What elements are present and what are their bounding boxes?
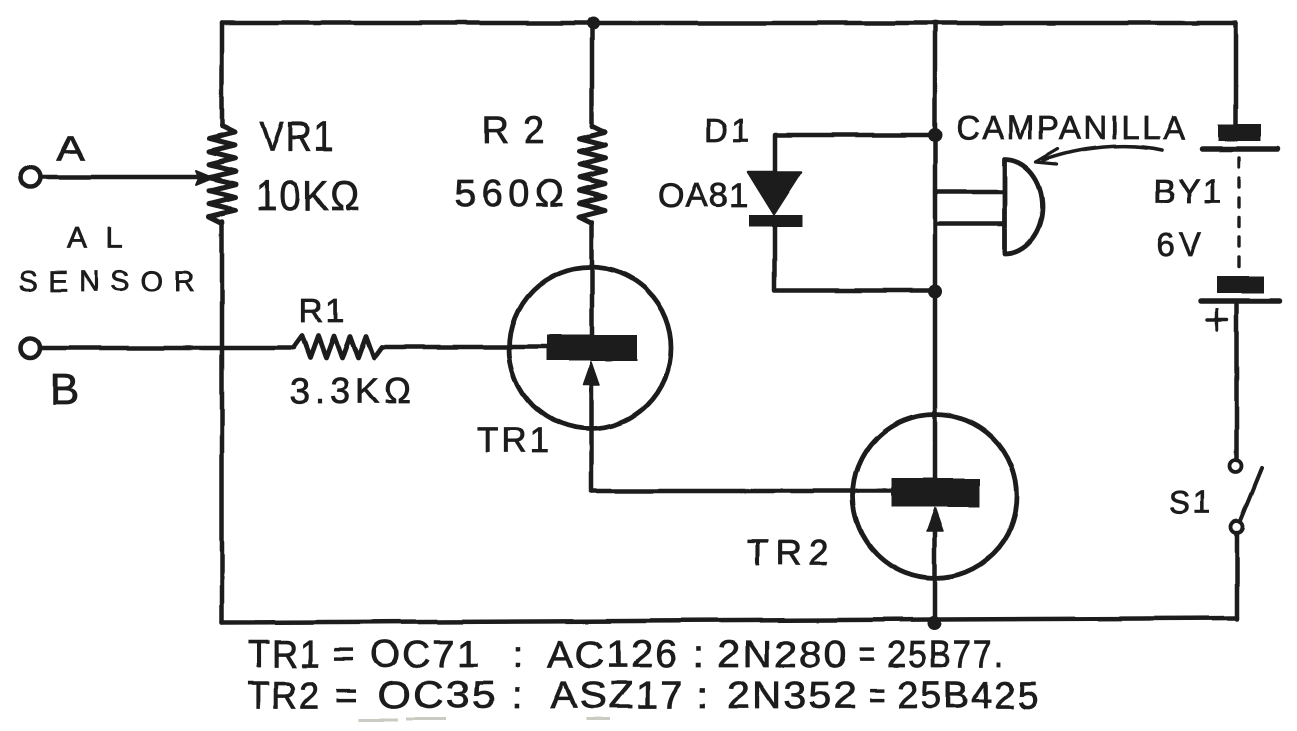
- svg-text:TR2: TR2: [747, 532, 836, 573]
- transistor TR1 emitter arrow: [583, 362, 599, 385]
- campanilla pointer arrow: [1044, 146, 1162, 160]
- wire TR1 emitter down: [589, 382, 594, 491]
- battery BY1 cell 1 positive plate: [1202, 146, 1278, 152]
- wire R2 branch upper (top rail to R2): [590, 23, 595, 127]
- svg-text:10KΩ: 10KΩ: [256, 171, 361, 219]
- VR1 wiper arrowhead: [196, 171, 213, 185]
- svg-text:AL: AL: [67, 222, 142, 255]
- wire mid-right rail (top rail down to TR2 collector bar): [933, 23, 938, 478]
- svg-text:TR2=OC35:ASZ17:2N352=25B425: TR2=OC35:ASZ17:2N352=25B425: [248, 675, 1040, 717]
- diode D1 cathode bar: [749, 215, 802, 227]
- battery BY1 cell 2 positive plate: [1201, 298, 1280, 304]
- transistor TR1 circle: [509, 267, 671, 429]
- svg-text:BY1: BY1: [1153, 173, 1223, 211]
- svg-text:R1: R1: [299, 292, 346, 330]
- svg-text:3.3KΩ: 3.3KΩ: [290, 370, 416, 411]
- transistor TR2 circle: [853, 414, 1017, 578]
- wire left rail lower (VR1 to bottom rail): [220, 221, 225, 623]
- wire D1 top branch: [775, 135, 935, 172]
- svg-text:OA81: OA81: [658, 177, 749, 215]
- svg-text:VR1: VR1: [260, 113, 335, 161]
- wire TR1 emitter to TR2 base: [591, 489, 892, 494]
- wire left rail upper (top rail to VR1): [220, 23, 225, 127]
- bell terminal wire upper: [935, 190, 1003, 195]
- faint smudge mark 1: [358, 719, 446, 720]
- resistor R1 zigzag: [294, 336, 382, 358]
- junction dot top of R2 branch: [587, 17, 600, 30]
- wire switch to bottom rail: [1235, 533, 1240, 619]
- terminal B: [20, 338, 40, 358]
- wire battery to switch: [1235, 304, 1240, 460]
- bell (campanilla) symbol: [1005, 159, 1043, 254]
- wire terminal A to VR1 wiper: [40, 175, 200, 180]
- svg-text:CAMPANILLA: CAMPANILLA: [956, 109, 1188, 146]
- wire R1 to TR1 base bar: [382, 345, 549, 350]
- svg-text:R2: R2: [482, 110, 559, 152]
- bell terminal wire lower: [935, 222, 1003, 227]
- svg-text:A: A: [56, 130, 85, 168]
- svg-text:S1: S1: [1169, 484, 1214, 520]
- svg-text:SENSOR: SENSOR: [19, 266, 204, 298]
- wire terminal B to R1: [40, 346, 294, 351]
- battery BY1 cell 2 negative plate: [1217, 276, 1264, 293]
- terminal A: [20, 167, 40, 187]
- battery BY1 cell 1 negative plate: [1218, 124, 1261, 141]
- battery plus sign: [1207, 310, 1227, 330]
- transistor TR1 base bar: [547, 335, 637, 361]
- battery internal dashed link: [1237, 158, 1240, 274]
- diode D1 triangle: [748, 172, 801, 214]
- wire R2 to TR1 collector bar: [590, 222, 595, 336]
- svg-text:D1: D1: [704, 112, 752, 149]
- wire battery rail upper: [1234, 23, 1239, 125]
- resistor R2 zigzag: [579, 126, 605, 223]
- transistor TR2 emitter arrow: [927, 508, 943, 531]
- potentiometer VR1 zigzag: [209, 126, 235, 223]
- switch S1 upper contact: [1230, 460, 1242, 472]
- faint smudge mark 2: [586, 718, 610, 721]
- wire D1 bottom branch: [775, 227, 935, 290]
- svg-text:B: B: [50, 365, 79, 414]
- wire TR2 emitter to bottom rail: [933, 528, 938, 624]
- junction dot bottom rail at TR2: [927, 616, 941, 630]
- svg-text:TR1: TR1: [477, 421, 552, 460]
- transistor TR2 base bar: [891, 478, 980, 507]
- svg-text:6V: 6V: [1156, 226, 1206, 263]
- junction dot D1 bottom branch: [928, 284, 942, 298]
- switch S1 lever: [1240, 468, 1262, 522]
- wire top rail: [222, 21, 1236, 26]
- junction dot D1 top branch: [928, 128, 942, 142]
- svg-text:560Ω: 560Ω: [455, 173, 569, 215]
- switch S1 lower contact: [1231, 521, 1243, 533]
- svg-text:TR1=OC71:AC126:2N280=25B77.: TR1=OC71:AC126:2N280=25B77.: [248, 634, 1005, 676]
- wire bottom rail: [222, 618, 1237, 623]
